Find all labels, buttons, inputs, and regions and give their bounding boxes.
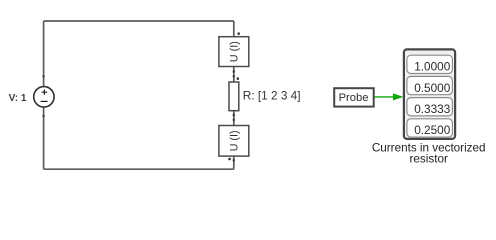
wire joint nub below U2 <box>233 159 235 161</box>
port dot below U2 <box>228 158 230 160</box>
wire resistor R to sensor U2 <box>233 111 235 126</box>
caption <box>372 141 486 165</box>
wire left upper <box>43 21 45 87</box>
display cell 1 <box>407 55 453 73</box>
svg-text:Probe: Probe <box>339 92 369 104</box>
svg-text:0.2500: 0.2500 <box>414 123 451 137</box>
wire joint nub R-U2 a <box>233 114 235 116</box>
display cell 3 <box>407 98 453 116</box>
port dot above resistor <box>237 78 239 80</box>
wire top <box>44 20 234 22</box>
display cell 2 <box>407 76 453 94</box>
svg-text:U (I): U (I) <box>228 41 240 62</box>
probe block <box>334 88 374 106</box>
svg-text:R: [1 2 3 4]: R: [1 2 3 4] <box>243 88 301 102</box>
wire joint nub U1-R a <box>233 70 235 72</box>
wire right upper <box>233 21 235 37</box>
port dot above U1 <box>238 33 240 35</box>
wire joint nub left upper <box>43 75 45 77</box>
wire sensor U1 to resistor R <box>233 67 235 83</box>
svg-text:resistor: resistor <box>410 153 448 166</box>
display cell 4 <box>407 119 453 137</box>
display block <box>404 49 455 138</box>
svg-text:U (I): U (I) <box>228 130 240 151</box>
svg-text:0.5000: 0.5000 <box>414 81 451 95</box>
wire left lower <box>43 107 45 169</box>
wire bottom <box>44 168 234 170</box>
resistor R <box>229 82 239 111</box>
wire joint nub R-U2 b <box>233 119 235 121</box>
current sensor U2 (bottom) <box>219 126 249 157</box>
current sensor U1 (top) <box>219 37 249 67</box>
svg-text:0.3333: 0.3333 <box>414 102 451 116</box>
arrowhead <box>393 93 403 100</box>
voltage source V <box>34 87 54 107</box>
signal wire green <box>375 96 394 98</box>
svg-text:1.0000: 1.0000 <box>414 60 451 74</box>
wire sensor U2 to bottom <box>233 156 235 169</box>
wire joint nub left lower <box>43 115 45 117</box>
svg-text:V: 1: V: 1 <box>9 93 27 104</box>
wire joint nub U1-R b <box>233 75 235 77</box>
